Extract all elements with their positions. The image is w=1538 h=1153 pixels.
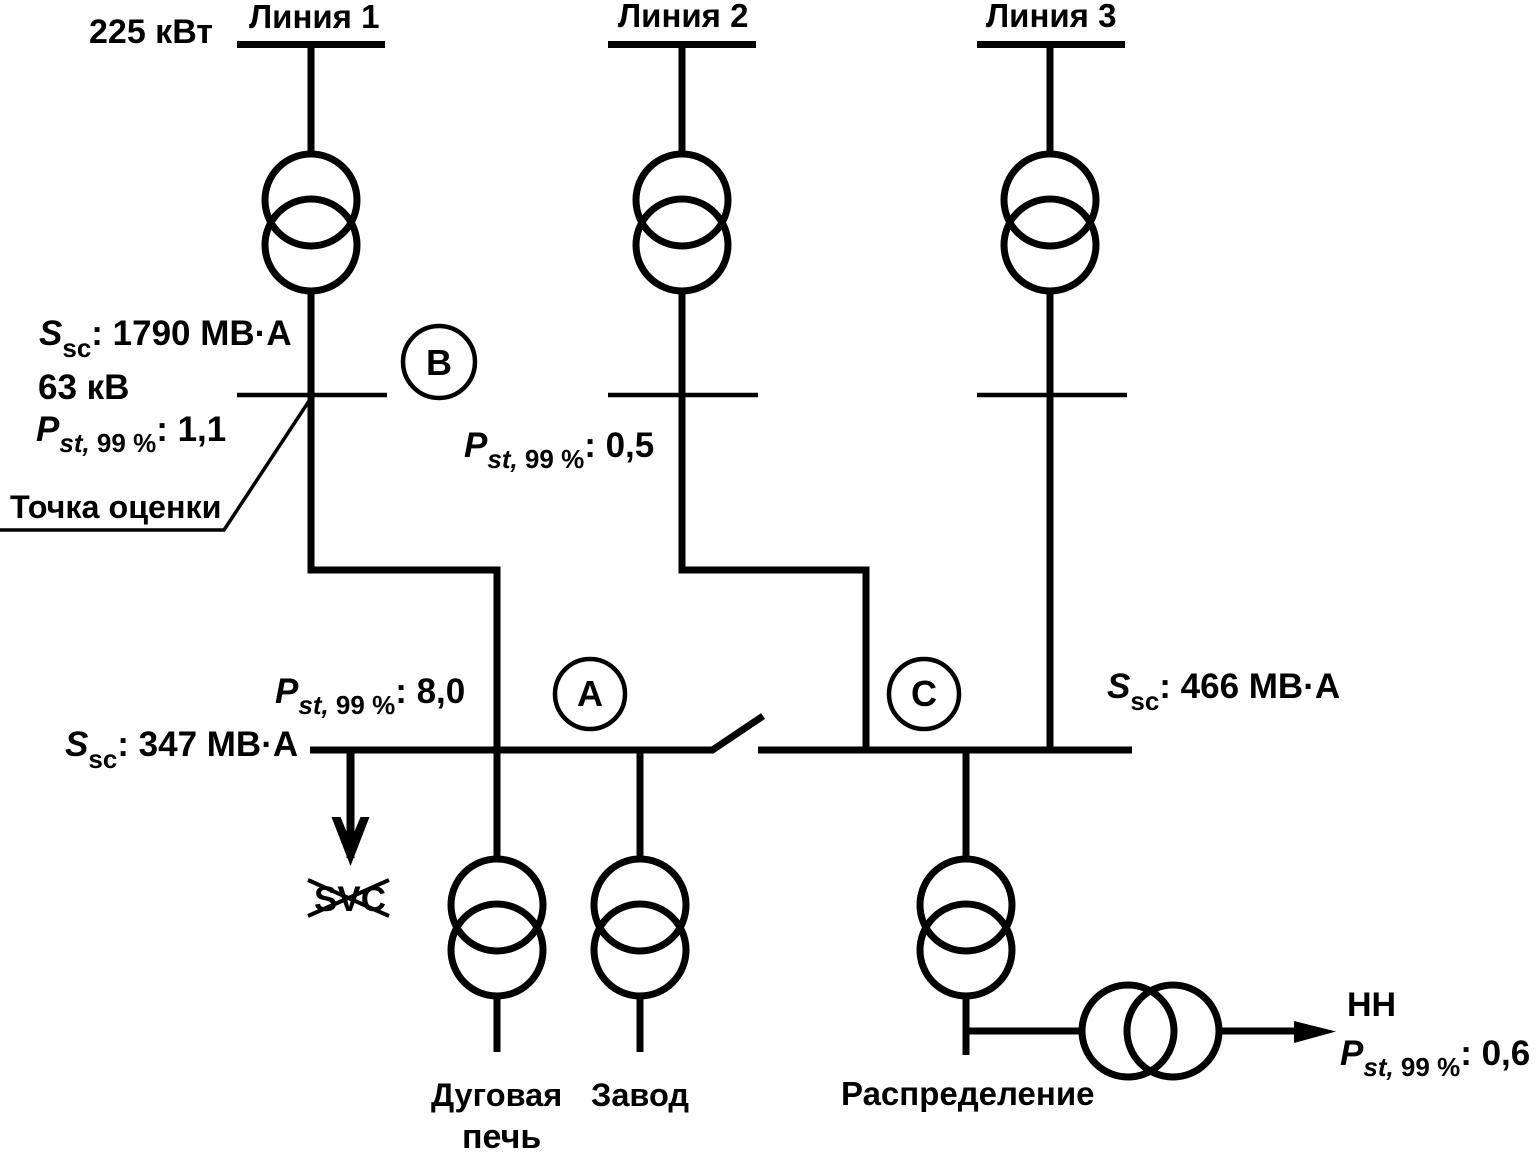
- svg-text:печь: печь: [462, 1118, 541, 1153]
- transformer distribution: [920, 859, 1012, 951]
- wire arc-furnace stub: [494, 996, 501, 1052]
- bus Линия 2: [608, 41, 756, 48]
- svg-text:НН: НН: [1347, 986, 1396, 1024]
- svg-text:A: A: [577, 673, 603, 714]
- node tick line2: [608, 393, 758, 398]
- svg-text:Распределение: Распределение: [841, 1075, 1094, 1112]
- svg-text:SVC: SVC: [314, 880, 386, 919]
- wire LV output: [1219, 1028, 1300, 1035]
- transformer LV horizontal: [1082, 985, 1174, 1077]
- svg-text:Дуговая: Дуговая: [431, 1077, 562, 1113]
- wire line2 to bus C: [682, 290, 866, 750]
- svg-text:63 кВ: 63 кВ: [38, 368, 129, 407]
- bus Линия 1: [237, 41, 385, 48]
- wire line2 drop to transformer: [679, 46, 686, 156]
- bus main left segment: [310, 747, 713, 754]
- LV arrowhead: [1294, 1021, 1336, 1043]
- svg-text:Линия 2: Линия 2: [618, 0, 748, 34]
- wire arc-furnace feeder: [494, 750, 501, 859]
- svg-text:C: C: [911, 673, 937, 714]
- node tick line3: [977, 393, 1127, 398]
- SVC cross: [308, 880, 389, 916]
- node B circle: [403, 326, 475, 398]
- wire SVC arrow shaft: [347, 753, 355, 858]
- node A circle: [555, 659, 625, 729]
- wire line1 drop to transformer: [308, 46, 315, 156]
- svg-text:B: B: [426, 342, 452, 383]
- svg-text:Завод: Завод: [591, 1077, 689, 1113]
- SVC arrowhead: [332, 817, 370, 866]
- transformer T3: [1004, 154, 1096, 246]
- wire factory stub: [637, 996, 644, 1052]
- bus Линия 3: [977, 41, 1125, 48]
- bus main right segment: [758, 747, 1132, 754]
- wire line1 to bus A: [311, 290, 497, 750]
- wire line3 drop to transformer: [1047, 46, 1054, 156]
- transformer T1: [265, 154, 357, 246]
- pointer Точка оценки: [0, 401, 309, 530]
- svg-text:Линия 1: Линия 1: [249, 0, 379, 35]
- node C circle: [889, 659, 959, 729]
- node tick line1: [237, 393, 387, 398]
- transformer factory: [594, 859, 686, 951]
- wire distribution stub: [963, 996, 970, 1055]
- wire distribution feeder: [963, 750, 970, 859]
- svg-text:225 кВт: 225 кВт: [89, 13, 213, 51]
- switch blade: [711, 716, 763, 751]
- transformer T2: [636, 154, 728, 246]
- transformer arc furnace: [451, 859, 543, 951]
- wire line3 to bus C: [1047, 290, 1054, 750]
- svg-text:Точка оценки: Точка оценки: [10, 489, 222, 525]
- wire factory feeder: [637, 750, 644, 859]
- svg-text:Линия 3: Линия 3: [986, 0, 1116, 34]
- wire branch to LV transformer: [966, 1028, 1081, 1035]
